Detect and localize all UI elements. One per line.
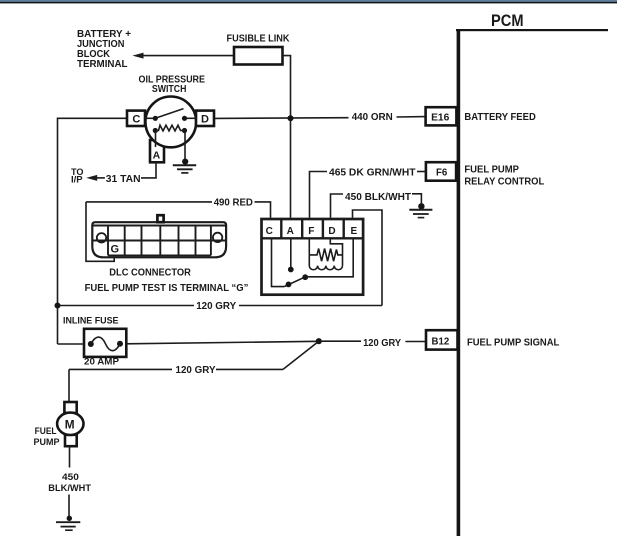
- svg-text:20 AMP: 20 AMP: [84, 356, 119, 367]
- svg-text:B12: B12: [432, 336, 450, 347]
- svg-text:SWITCH: SWITCH: [152, 84, 187, 95]
- svg-text:120 GRY: 120 GRY: [176, 365, 216, 376]
- svg-text:450: 450: [62, 472, 79, 483]
- svg-text:C: C: [132, 114, 140, 126]
- svg-text:RELAY CONTROL: RELAY CONTROL: [464, 177, 544, 188]
- svg-text:E16: E16: [431, 112, 450, 123]
- svg-text:A: A: [153, 149, 161, 161]
- svg-text:FUSIBLE LINK: FUSIBLE LINK: [227, 34, 291, 45]
- svg-text:I/P: I/P: [71, 175, 83, 185]
- svg-text:120 GRY: 120 GRY: [196, 301, 236, 312]
- svg-text:E: E: [350, 226, 357, 237]
- svg-text:D: D: [201, 114, 209, 126]
- svg-text:PUMP: PUMP: [34, 437, 61, 448]
- svg-text:FUEL PUMP TEST IS TERMINAL “G”: FUEL PUMP TEST IS TERMINAL “G”: [85, 283, 249, 294]
- svg-text:FUEL PUMP SIGNAL: FUEL PUMP SIGNAL: [467, 337, 559, 348]
- svg-text:BLK/WHT: BLK/WHT: [48, 483, 91, 494]
- svg-text:INLINE FUSE: INLINE FUSE: [63, 315, 119, 326]
- svg-text:PCM: PCM: [491, 12, 524, 30]
- svg-text:490 RED: 490 RED: [214, 197, 253, 208]
- svg-text:465 DK GRN/WHT: 465 DK GRN/WHT: [329, 168, 416, 179]
- svg-text:F: F: [308, 226, 314, 237]
- svg-text:31 TAN: 31 TAN: [106, 174, 141, 185]
- svg-text:TERMINAL: TERMINAL: [77, 59, 128, 70]
- svg-text:FUEL: FUEL: [35, 426, 57, 437]
- svg-text:C: C: [266, 226, 273, 237]
- svg-text:G: G: [111, 243, 120, 255]
- svg-text:D: D: [328, 226, 335, 237]
- svg-text:DLC CONNECTOR: DLC CONNECTOR: [109, 267, 191, 278]
- svg-text:FUEL PUMP: FUEL PUMP: [464, 165, 519, 176]
- svg-text:F6: F6: [436, 167, 448, 178]
- svg-text:120 GRY: 120 GRY: [363, 338, 401, 349]
- svg-text:450 BLK/WHT: 450 BLK/WHT: [345, 192, 412, 203]
- svg-text:A: A: [287, 226, 294, 237]
- svg-text:440 ORN: 440 ORN: [352, 112, 393, 123]
- svg-text:BATTERY FEED: BATTERY FEED: [464, 112, 535, 123]
- svg-text:M: M: [65, 418, 75, 432]
